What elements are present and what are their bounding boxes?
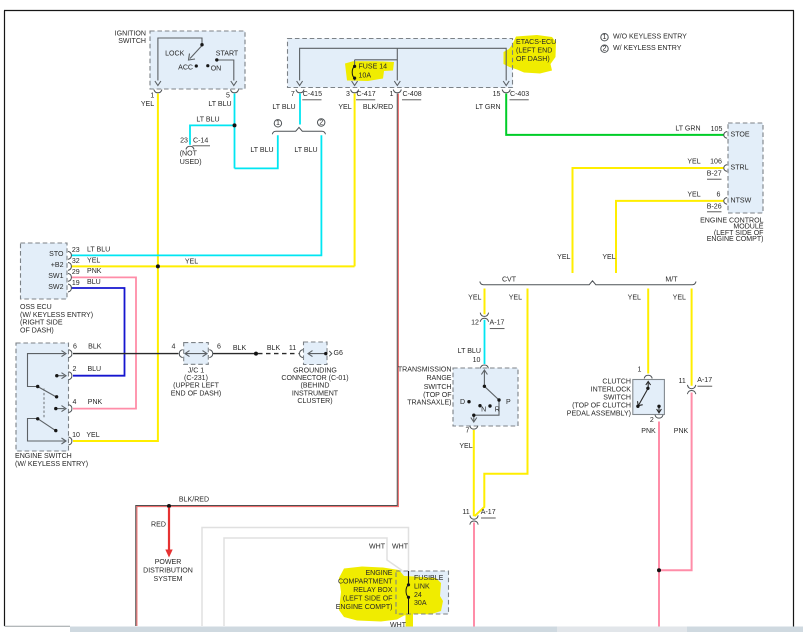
svg-text:+B2: +B2 [51, 262, 64, 269]
circled 1 legend [601, 34, 608, 41]
svg-text:POWER: POWER [155, 559, 182, 566]
junction dot BLK/RED [167, 504, 171, 508]
ETACS-ECU box fill [288, 39, 513, 88]
svg-text:11: 11 [462, 509, 469, 516]
wire PNK below A-17 left [473, 523, 475, 628]
svg-text:7: 7 [466, 428, 470, 435]
ignition pin arrows [155, 81, 161, 86]
svg-text:RANGE: RANGE [426, 375, 451, 382]
svg-text:BLK: BLK [88, 343, 102, 350]
svg-text:(TOP OF: (TOP OF [423, 392, 452, 399]
svg-text:CLUTCH: CLUTCH [602, 378, 631, 385]
transmission range switch box fill [453, 368, 518, 426]
svg-text:LT BLU: LT BLU [250, 147, 273, 154]
wire RED arrow to power distribution system [168, 508, 170, 551]
svg-text:YEL: YEL [687, 191, 700, 198]
svg-text:C-417: C-417 [357, 91, 376, 98]
svg-text:STO: STO [49, 251, 64, 258]
svg-text:B-26: B-26 [707, 204, 722, 211]
engine switch internal wiring [28, 354, 65, 387]
fusible link dots [407, 583, 410, 586]
svg-text:23: 23 [180, 138, 188, 145]
svg-text:2: 2 [319, 119, 323, 126]
wire BLK dashed to grounding connector [258, 353, 299, 355]
clutch interlock switch box border [633, 380, 665, 415]
svg-text:W/ KEYLESS ENTRY: W/ KEYLESS ENTRY [613, 45, 682, 52]
svg-text:COMPARTMENT: COMPARTMENT [338, 579, 393, 586]
engine control module box fill [728, 123, 763, 213]
svg-text:4: 4 [73, 399, 77, 406]
OSS ECU box border [21, 243, 68, 299]
svg-text:(NOT: (NOT [180, 151, 198, 158]
connector arc ETACS pin3 [351, 90, 359, 93]
svg-text:D: D [460, 399, 465, 406]
grounding connector dot [324, 352, 327, 355]
connector arcs engine switch pins [69, 350, 72, 358]
connector arc ECM STRL [724, 165, 727, 172]
svg-text:W/O KEYLESS ENTRY: W/O KEYLESS ENTRY [613, 34, 687, 41]
svg-text:PEDAL ASSEMBLY): PEDAL ASSEMBLY) [567, 411, 631, 418]
svg-text:LOCK: LOCK [165, 51, 184, 58]
svg-text:YEL: YEL [509, 294, 522, 301]
connector arc ETACS pin7 [296, 90, 304, 93]
svg-text:(W/ KEYLESS ENTRY): (W/ KEYLESS ENTRY) [20, 312, 93, 319]
OSS ECU box fill [21, 243, 68, 299]
svg-text:DISTRIBUTION: DISTRIBUTION [143, 568, 193, 575]
svg-text:1: 1 [390, 91, 394, 98]
svg-text:ENGINE COMPT): ENGINE COMPT) [707, 236, 764, 243]
svg-text:SWITCH: SWITCH [118, 38, 146, 45]
svg-text:YEL: YEL [628, 294, 641, 301]
svg-text:(LEFT END: (LEFT END [516, 47, 552, 54]
ETACS pin arrows [297, 81, 303, 86]
circled 2 legend [601, 45, 608, 52]
fusible link symbol [406, 585, 408, 614]
underline A-17 pin11 left [481, 517, 496, 519]
junction dot YEL [156, 264, 160, 268]
highlight strip below relay box [406, 611, 414, 629]
connector arc TRS pin7 [470, 426, 478, 429]
connector arc ECM STOE [724, 132, 727, 139]
clutch switch internal wiring [646, 382, 651, 386]
svg-text:IGNITION: IGNITION [115, 31, 146, 38]
wire YEL ECM STRL [573, 168, 724, 273]
ignition switch box fill [150, 31, 245, 89]
svg-text:INTERLOCK: INTERLOCK [591, 386, 632, 393]
svg-text:PNK: PNK [641, 428, 656, 435]
svg-text:J/C 1: J/C 1 [188, 368, 205, 375]
svg-text:C-14: C-14 [193, 138, 208, 145]
connector arc ETACS pin15 [502, 90, 510, 93]
svg-text:LT BLU: LT BLU [458, 348, 481, 355]
svg-text:PNK: PNK [88, 399, 103, 406]
svg-text:B-27: B-27 [707, 171, 722, 178]
svg-text:ETACS-ECU: ETACS-ECU [516, 39, 556, 46]
svg-text:19: 19 [72, 280, 80, 287]
underline C-415 [302, 99, 321, 101]
grounding connector internal arrow [308, 353, 326, 355]
underline B-27 [707, 178, 722, 180]
clutch interlock switch box fill [633, 380, 665, 415]
engine compartment relay box border [396, 571, 449, 614]
svg-text:(LEFT SIDE OF: (LEFT SIDE OF [343, 596, 393, 603]
svg-text:2: 2 [603, 46, 607, 53]
connector arcs OSS ECU pins [68, 251, 71, 259]
engine switch box fill [16, 343, 69, 451]
wire YEL ignition pin1 to junction and down to engine switch pin10 [73, 94, 158, 442]
svg-text:SWITCH: SWITCH [603, 395, 631, 402]
wire BLU OSS SW2 to engine switch pin2 [71, 288, 125, 376]
svg-text:LT BLU: LT BLU [294, 147, 317, 154]
scrollbar track [70, 627, 803, 632]
svg-text:LINK: LINK [414, 584, 430, 591]
highlight ETACS-ECU label [504, 35, 557, 74]
fuse 14 dots [353, 65, 356, 68]
connector arcs A-17 pin11 right [687, 385, 695, 389]
svg-text:7: 7 [291, 91, 295, 98]
svg-text:OF DASH): OF DASH) [20, 328, 54, 335]
ignition switch contact dots [200, 43, 203, 46]
svg-text:YEL: YEL [338, 104, 351, 111]
svg-text:YEL: YEL [468, 294, 481, 301]
svg-text:BLU: BLU [87, 279, 101, 286]
svg-text:SW1: SW1 [48, 273, 63, 280]
wire YEL ECM NTSW [616, 201, 724, 273]
svg-text:6: 6 [217, 344, 221, 351]
wire YEL horizontal +B2 / fuse14 net [71, 265, 355, 267]
wire LT BLU ignition pin5 down [234, 94, 236, 169]
svg-text:PNK: PNK [674, 428, 689, 435]
svg-text:TRANSMISSION: TRANSMISSION [398, 367, 452, 374]
svg-text:RELAY BOX: RELAY BOX [353, 587, 393, 594]
svg-text:15: 15 [493, 91, 501, 98]
svg-text:10A: 10A [359, 73, 372, 80]
svg-text:YEL: YEL [673, 294, 686, 301]
connector arc grounding connector left [300, 350, 303, 358]
wire YEL CVT branch 2 bypass [475, 289, 528, 517]
J/C 1 box border [184, 343, 209, 365]
svg-text:1: 1 [603, 34, 607, 41]
frame left [4, 11, 6, 627]
svg-text:WHT: WHT [392, 544, 409, 551]
connector arc ignition pin5 [231, 90, 239, 93]
svg-text:END OF DASH): END OF DASH) [171, 390, 222, 397]
svg-text:2: 2 [73, 366, 77, 373]
underline C-403 [510, 99, 529, 101]
svg-text:YEL: YEL [87, 258, 100, 265]
svg-text:1: 1 [150, 93, 154, 100]
underline B-26 [707, 211, 722, 213]
grounding connector box fill [304, 342, 328, 365]
transmission range switch box border [453, 368, 518, 426]
svg-text:(BEHIND: (BEHIND [301, 383, 330, 390]
svg-text:24: 24 [414, 592, 422, 599]
svg-text:YEL: YEL [557, 254, 570, 261]
svg-text:R: R [495, 406, 500, 413]
svg-text:CONNECTOR (C-01): CONNECTOR (C-01) [281, 375, 348, 382]
svg-text:GROUNDING: GROUNDING [293, 368, 337, 375]
svg-text:YEL: YEL [687, 158, 700, 165]
connector arc ECM NTSW [724, 198, 727, 205]
J/C1 internal double arrow [185, 353, 207, 355]
frame bottom left segment [5, 625, 71, 627]
svg-text:2: 2 [650, 417, 654, 424]
svg-text:LT GRN: LT GRN [475, 104, 500, 111]
svg-text:LT BLU: LT BLU [208, 101, 231, 108]
svg-text:ON: ON [211, 65, 222, 72]
svg-text:6: 6 [73, 343, 77, 350]
svg-text:FUSIBLE: FUSIBLE [414, 575, 444, 582]
brace 1-2 keyless [272, 127, 325, 134]
wire LT BLU brace leg 2 to OSS ECU STO [71, 135, 321, 255]
svg-text:TRANSAXLE): TRANSAXLE) [407, 399, 451, 406]
clutch switch dots [646, 387, 649, 390]
TRS internal wiring [481, 370, 487, 375]
highlight fuse 14 [345, 61, 394, 81]
ETACS internal bus [300, 48, 507, 80]
underline A-17 pin12 [490, 328, 505, 330]
svg-text:3: 3 [346, 91, 350, 98]
svg-text:(TOP OF CLUTCH: (TOP OF CLUTCH [572, 403, 631, 410]
wire YEL TRS pin7 out [473, 430, 475, 516]
svg-text:STRL: STRL [731, 165, 749, 172]
svg-text:A-17: A-17 [481, 509, 496, 516]
junction dot LT BLU [233, 123, 237, 127]
svg-text:WHT: WHT [369, 544, 386, 551]
wire LT BLU A-17 to TRS pin10 [484, 320, 486, 364]
wire BLK/RED black part [136, 94, 398, 627]
svg-text:LT BLU: LT BLU [87, 247, 110, 254]
wire relay box entry to fusible link [408, 571, 410, 585]
svg-text:29: 29 [72, 269, 80, 276]
svg-text:ENGINE COMPT): ENGINE COMPT) [336, 604, 393, 611]
wire PNK OSS SW1 to engine switch pin4 [71, 277, 136, 408]
svg-text:YEL: YEL [602, 254, 615, 261]
underline A-17 pin11 right [698, 385, 713, 387]
svg-text:YEL: YEL [86, 432, 99, 439]
engine switch pin arrowheads [62, 351, 67, 357]
svg-text:OSS ECU: OSS ECU [20, 304, 52, 311]
connector arc clutch switch pin2 [655, 415, 663, 418]
svg-text:4: 4 [172, 344, 176, 351]
svg-text:START: START [216, 51, 239, 58]
svg-text:YEL: YEL [459, 443, 472, 450]
svg-text:(RIGHT SIDE: (RIGHT SIDE [20, 320, 63, 327]
svg-text:1: 1 [276, 120, 280, 127]
svg-text:10: 10 [473, 357, 481, 364]
connector arc J/C1 left [179, 350, 182, 358]
svg-text:(UPPER LEFT: (UPPER LEFT [173, 383, 220, 390]
frame top [4, 10, 794, 12]
connector mark G6 [329, 351, 332, 356]
junction dot PNK [657, 568, 661, 572]
svg-text:CVT: CVT [502, 277, 517, 284]
svg-text:C-408: C-408 [403, 91, 422, 98]
svg-text:10: 10 [72, 432, 80, 439]
wire YEL CVT branch 1 [484, 289, 486, 315]
fuse 14 symbol [352, 66, 354, 78]
svg-text:STOE: STOE [731, 132, 750, 139]
wire LT BLU branch to C-14 [190, 125, 235, 144]
engine switch box border [16, 343, 69, 451]
svg-text:FUSE 14: FUSE 14 [359, 64, 388, 71]
connector arc clutch switch pin1 [644, 375, 652, 378]
ETACS-ECU box border [288, 39, 513, 88]
wire YEL M/T branch 2 to A-17 [691, 289, 693, 386]
svg-text:1: 1 [638, 367, 642, 374]
wire BLK engine switch pin6 to J/C1 [73, 353, 179, 355]
svg-text:30A: 30A [414, 600, 427, 607]
circled 2 at brace [318, 119, 325, 126]
scrollbar light segment [557, 627, 687, 632]
svg-text:PNK: PNK [87, 268, 102, 275]
wire PNK clutch switch pin2 down [658, 422, 660, 628]
connector arc C-14 [186, 146, 194, 149]
svg-text:6: 6 [717, 191, 721, 198]
svg-text:ENGINE SWITCH: ENGINE SWITCH [15, 453, 72, 460]
svg-text:23: 23 [72, 247, 80, 254]
highlight relay box label [339, 567, 443, 622]
wire PNK from A-17 right down and left to junction [659, 393, 692, 571]
ignition switch internal wiring [158, 38, 202, 81]
svg-text:G6: G6 [334, 350, 343, 357]
underline C-14 [193, 145, 211, 147]
engine control module box border [728, 123, 763, 213]
svg-text:WHT: WHT [390, 622, 407, 629]
svg-text:M/T: M/T [665, 277, 678, 284]
wire LT BLU ETACS pin7 drop [299, 94, 301, 125]
svg-text:BLK/RED: BLK/RED [179, 497, 209, 504]
svg-text:BLK: BLK [267, 345, 281, 352]
svg-text:12: 12 [471, 320, 479, 327]
connector arcs A-17 pin12 [480, 313, 488, 317]
wire YEL ETACS pin3 drop [354, 94, 356, 267]
svg-text:106: 106 [710, 158, 722, 165]
frame right [793, 11, 795, 628]
svg-text:P: P [506, 399, 511, 406]
svg-text:C-403: C-403 [510, 91, 529, 98]
svg-text:SWITCH: SWITCH [424, 384, 452, 391]
svg-text:BLU: BLU [87, 366, 101, 373]
svg-text:LT BLU: LT BLU [272, 104, 295, 111]
wire BLK J/C1 to junction dot [213, 353, 256, 355]
svg-text:LT BLU: LT BLU [196, 117, 219, 124]
engine switch contact dots [36, 385, 39, 388]
grounding connector box border [304, 342, 328, 365]
connector arc J/C1 right [209, 350, 212, 358]
svg-text:N: N [481, 406, 486, 413]
wire WHT inner loop [224, 538, 403, 626]
svg-text:BLK/RED: BLK/RED [363, 104, 393, 111]
wire WHT outer loop [202, 528, 409, 627]
connector arc ETACS pin1 [393, 90, 401, 93]
wire YEL M/T branch 1 to clutch switch [647, 289, 649, 374]
svg-text:YEL: YEL [185, 259, 198, 266]
svg-text:LT GRN: LT GRN [675, 125, 700, 132]
svg-text:RED: RED [151, 522, 166, 529]
ignition switch box border [150, 31, 245, 89]
connector arcs A-17 pin11 left [470, 515, 478, 519]
svg-text:11: 11 [679, 378, 686, 385]
wire LT BLU to brace leg 1 [235, 135, 278, 168]
svg-text:ENGINE: ENGINE [365, 570, 392, 577]
TRS contact dots [483, 385, 486, 388]
svg-text:CLUSTER): CLUSTER) [297, 398, 332, 405]
svg-text:NTSW: NTSW [731, 198, 752, 205]
svg-text:USED): USED) [180, 159, 202, 166]
brace CVT / M-T [480, 281, 696, 285]
svg-text:105: 105 [711, 126, 723, 133]
svg-text:(W/ KEYLESS ENTRY): (W/ KEYLESS ENTRY) [15, 461, 88, 468]
wire LT GRN ETACS pin15 to ECM STOE [506, 94, 723, 135]
svg-text:A-17: A-17 [697, 377, 712, 384]
engine compartment relay box fill [396, 571, 449, 614]
svg-text:11: 11 [289, 345, 296, 352]
engine switch linkage dashed [43, 389, 45, 419]
svg-text:ACC: ACC [178, 64, 193, 71]
svg-text:32: 32 [72, 258, 80, 265]
wire WHT below fusible link [408, 598, 410, 627]
circled 1 at brace [274, 120, 281, 127]
wire BLK/RED red part [137, 94, 399, 627]
svg-text:(C-231): (C-231) [184, 375, 208, 382]
connector arc ignition pin1 [154, 90, 162, 93]
svg-text:SW2: SW2 [48, 284, 63, 291]
svg-text:YEL: YEL [141, 101, 154, 108]
connector arc TRS pin10 [480, 365, 488, 368]
svg-text:5: 5 [226, 93, 230, 100]
svg-text:BLK: BLK [233, 345, 247, 352]
svg-text:INSTRUMENT: INSTRUMENT [292, 390, 339, 397]
svg-text:A-17: A-17 [490, 320, 505, 327]
svg-text:OF DASH): OF DASH) [516, 56, 550, 63]
svg-text:C-415: C-415 [303, 91, 322, 98]
underline C-417 [356, 99, 375, 101]
junction dot BLK [254, 352, 258, 356]
J/C 1 box fill [184, 343, 209, 365]
svg-text:SYSTEM: SYSTEM [154, 576, 183, 583]
underline C-408 [402, 99, 421, 101]
